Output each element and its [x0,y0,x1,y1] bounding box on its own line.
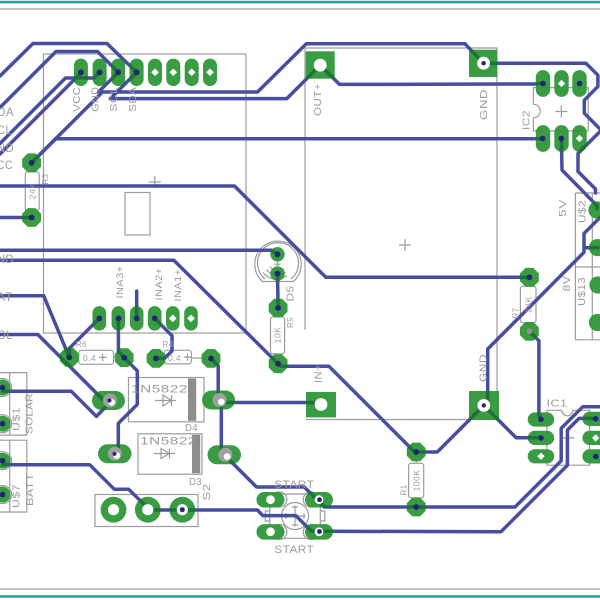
label 8V [561,276,573,292]
IC1 pad left bottom [528,449,555,463]
IC2 pad top 3 [572,70,586,97]
label VCC (header pin 1) [71,87,83,112]
label 1N5822 (D3) [140,436,197,448]
svg-text:R3: R3 [40,174,50,185]
drill diamonds INA pads 5-6 [169,315,195,323]
switch S2 pad 3 [169,497,195,523]
wire: left edge horizontal then diagonal to R5 bottom pad [0,260,278,363]
left edge net label GND [0,143,14,155]
label 5V [557,199,569,217]
left edge net label BAT [0,292,13,304]
switch S2 pad 2 [135,497,161,523]
START button pad bottom-left [257,524,285,540]
header JP1 pad 6 [166,59,180,87]
connector US2 5V outline [575,193,600,267]
IC2 pad bottom 2 [554,125,568,152]
svg-text:0.4: 0.4 [83,353,96,363]
terminal OUT+ square pad [306,51,335,78]
connector US13 pad 1 [589,276,600,293]
svg-text:U$13: U$13 [576,277,588,306]
label GND (header pin 2) [90,87,102,112]
svg-text:SOLAR: SOLAR [24,393,36,434]
svg-text:START: START [274,479,314,491]
pushbutton START body outline [265,492,325,540]
label U$13 [576,277,588,306]
label 1N5822 (D4) [131,384,188,396]
svg-text:IC1: IC1 [547,398,568,410]
wire: right edge re-entry to US2 area [578,132,600,194]
svg-text:5V: 5V [557,199,569,217]
connector US2 pad 1 [588,201,600,218]
wire: header pad3 stub to junction, across to GND square pad [99,44,484,92]
resistor R6 right pad [115,348,134,367]
diode D3 left pad [98,444,132,463]
resistor R7 bottom pad [520,322,539,341]
header JP1 pad 3 SCL [111,59,125,87]
svg-text:100K: 100K [411,470,421,492]
INA header pad 4 INA2+ [148,306,162,331]
label SOLAR [24,393,36,434]
left edge net label GND2 [0,254,14,266]
label OUT+ [312,83,324,116]
wire: D4 right pad across to IN+ pad [218,401,321,405]
svg-text:8V: 8V [561,276,573,292]
wire net SOLAR: connector pad to D4 left pad [3,391,111,416]
label SCL (header pin 3) [108,87,120,112]
svg-text:CC: CC [0,160,13,172]
label GND (middle square pad) [477,354,489,382]
svg-text:CL: CL [0,125,12,137]
svg-text:D5: D5 [285,286,297,302]
IC2 pad top 1 [536,70,550,97]
resistor R1 bottom pad [407,498,426,517]
header JP1 pad 5 [148,59,162,87]
wire: START pad4 along bottom to IC1 right top pin [320,418,596,531]
IC1 pad right middle [582,431,600,445]
diode D4 left pad [92,391,125,410]
header JP1 pad 8 [203,59,217,87]
svg-text:U$1: U$1 [12,407,23,431]
label INA3+ [115,265,126,298]
label START (bottom) [274,544,314,556]
switch S2 pad 1 [101,497,127,523]
IC2 outline with pin1 notch [533,88,588,131]
drill diamonds header pads 5-8 [151,68,214,76]
svg-text:SDA: SDA [127,87,139,112]
resistor R5 top pad [269,299,288,318]
value 10K (R5) [273,327,283,344]
wire net BAT: left edge steep diagonal to R6 left pad [0,296,69,358]
wire net GND: left edge under pads to header pad 2 [0,72,100,143]
wire: R3 top pad to long horizontal to IC2 bottom pin 1 [32,139,543,163]
svg-text:GND: GND [477,354,489,382]
header JP1 pad 7 [185,59,199,87]
connector U$7 BATT pad 1 [0,453,11,469]
svg-text:BATT: BATT [24,473,36,506]
left edge net label SDA [0,107,14,119]
svg-text:ND: ND [0,254,14,266]
label R6 and value 0.47 [76,339,107,363]
module U$5 outline box (top-middle) [305,48,497,420]
svg-text:D4: D4 [185,422,198,434]
wire: R5 bottom pad to IN+ junction to R1 top pad [278,364,414,452]
resistor R3 bottom pad [22,208,41,227]
wire: GND2 square pad up and over to right edge via US2 [484,218,600,406]
resistor R1 top pad [407,443,426,462]
resistor R7 top pad [520,268,539,287]
connector U$7 BATT outline [0,440,27,512]
svg-text:0.4: 0.4 [168,353,181,363]
IC1 pad right bottom [582,449,600,463]
display window rectangle inside module [125,193,150,236]
svg-text:INA1+: INA1+ [173,268,184,301]
IC1 outline with pin1 notch [547,410,590,465]
svg-text:10K: 10K [273,327,283,344]
wire: left edge horizontal to D5 top pad [0,250,278,254]
START button pad top-right [305,492,333,508]
label R7 [511,308,521,319]
wire: stub from vertical to US2 pad 2 [584,246,598,250]
header JP1 pad 4 SDA [130,59,144,87]
svg-text:GND: GND [478,89,490,120]
terminal IN+ square pad [306,392,336,417]
wire: R7 bottom pad down to IC1 left top pin [529,331,541,419]
svg-text:OUT+: OUT+ [312,83,324,116]
svg-text:DA: DA [0,107,14,119]
svg-text:U$7: U$7 [12,484,23,508]
label U$7 [12,484,23,508]
connector US2 pad 2 [589,239,600,256]
drill holes START button pads [266,495,323,536]
svg-text:R6: R6 [76,339,87,349]
drill dots capacitor D5 [275,251,281,276]
wire: INA pad2 down to R6 right pad [118,318,124,357]
wire: INA pad4 zigzag to R4 left pad [155,318,172,358]
capacitor D5 top pad [270,247,284,261]
terminal GND square pad (top) [469,50,497,77]
label D5 [285,286,297,302]
wire net SDA: left edge to header pad 4 [0,44,137,77]
connector U$1 SOLAR outline [0,373,27,436]
svg-text:1N5822: 1N5822 [131,384,188,396]
drill dots header pads 1-4 [78,69,140,75]
left edge net label SCL [0,125,12,137]
value 100K (R1) [411,470,421,492]
resistor R1 body [409,454,424,504]
capacitor D5 round body outline [255,241,301,281]
connector U$7 BATT pad 2 [0,487,11,503]
svg-text:R5: R5 [285,317,295,328]
label IN+ [312,364,324,383]
drill dots resistor pads [29,160,533,510]
origin cross of module U$5 [399,239,411,251]
wire: D5 bottom pad to R5 top pad [276,274,280,308]
label SDA (header pin 4) [127,87,139,112]
connector U$1 SOLAR pad 2 [0,416,11,432]
svg-text:R4: R4 [163,339,174,349]
diode D3 cathode band [192,435,200,473]
wire: GND2 square pad down-left to R1 top pad [416,405,484,452]
START button pad top-left [257,492,285,508]
wire net VCC: left edge to header pad 1 [0,73,81,154]
svg-text:U$2: U$2 [577,200,589,223]
label IC1 [547,398,568,410]
diode D3 right pad [208,445,242,464]
svg-text:24K: 24K [27,183,37,200]
wire: left edge to R3 bottom pad [0,216,32,220]
wire: left edge horizontal crossing R3 then diagonal to R7 top pad [0,186,529,277]
label START (top) [274,479,314,491]
value 24K (R3) [27,183,37,200]
wire net SCL: left edge to header pad 3 [0,52,118,108]
drill holes diodes D4 D3 [103,393,232,462]
wire: D4 right pad down to D3 right pad [218,400,224,454]
drill dots INA pads 1-4 [96,316,157,322]
left edge net label VCC [0,160,13,172]
svg-text:SCL: SCL [108,87,120,112]
label INA1+ [173,268,184,301]
diode D4 outline box [129,378,205,422]
label R4 and value 0.47 [163,339,192,363]
wire: header pad4 stub, across to OUT+ pad and on to IC2 pin [110,65,542,98]
START button pad bottom-right [305,524,333,540]
module U$4 outline box (top-left) [44,54,247,333]
svg-text:IC2: IC2 [521,110,533,130]
svg-text:OL: OL [0,330,13,342]
INA header pad 3 [130,306,144,331]
svg-text:INA2+: INA2+ [154,267,165,300]
wire: D3 right pad through START button to IC1 area top right exit [224,407,600,507]
INA header pad 1 [93,306,107,331]
resistor R6 body [72,350,121,364]
diode D4 schematic symbol [155,395,176,406]
INA header pad 5 INA1+ [166,306,180,331]
wire: R6 right pad down around to D3 left pad [116,358,137,453]
resistor R4 left pad [147,349,166,368]
label U$2 [577,200,589,223]
diode D3 outline box [138,434,202,474]
wire net BATT: connector through S2 pad3 to START pad4 [3,465,320,532]
origin cross of IC2 [555,106,567,118]
INA header pad 6 [184,306,198,331]
label IC2 [521,110,533,130]
wire: R3 top pad diagonal to mid junction [32,92,103,163]
resistor R4 right pad [202,349,221,368]
resistor R3 body [25,165,39,216]
svg-text:ND: ND [0,143,14,155]
wire: stub into INA pad3 from above [135,291,139,318]
connector US13 8V outline [575,267,600,340]
label R3 [40,174,50,185]
origin cross of IC1 [562,432,574,444]
wire: IC2 bottom pin 2 down to US2 pad 1 [561,139,597,209]
label S2 [201,484,213,501]
connector US13 pad 2 [589,314,600,331]
drill holes square terminal pads [314,57,490,412]
svg-text:1N5822: 1N5822 [140,436,197,448]
label BATT [24,473,36,506]
svg-text:24K: 24K [523,296,533,313]
header JP1 pad 1 VCC [74,59,88,87]
resistor R5 body [271,310,285,360]
label R1 [399,485,409,496]
svg-text:S2: S2 [201,484,213,501]
resistor R4 body [157,350,206,364]
svg-text:START: START [274,544,314,556]
header JP1 pad 2 GND [93,59,107,87]
IC2 pad bottom 3 [572,125,586,152]
origin cross of module U$4 [149,176,161,188]
left edge net label SOL [0,330,13,342]
label D3 [189,476,202,488]
label U$1 [12,407,23,431]
svg-text:INA3+: INA3+ [115,265,126,298]
svg-text:R7: R7 [511,308,521,319]
switch S2 outline box [95,495,198,527]
resistor R5 bottom pad [269,354,288,373]
label D4 [185,422,198,434]
diode D4 cathode band [188,379,196,421]
svg-text:AT: AT [0,292,13,304]
IC1 pad left middle [528,431,555,445]
svg-text:IN+: IN+ [312,364,324,383]
drill marks IC2 pads [540,80,583,142]
resistor R7 body [520,279,536,328]
svg-text:R1: R1 [399,485,409,496]
drill holes switch S2 [108,504,188,515]
IC1 pad right top [582,412,600,426]
INA header pad 2 INA3+ [112,306,126,331]
value 24K (R7) [523,296,533,313]
label GND (top square pad) [478,89,490,120]
polarity cross of D5 [275,261,281,267]
svg-text:VCC: VCC [71,87,83,112]
wire: R4 right pad down to D4 right pad [211,358,218,399]
svg-text:GND: GND [90,87,102,112]
capacitor D5 bottom pad [270,266,284,280]
drill marks IC1 pads [537,416,599,460]
label INA2+ [154,267,165,300]
IC2 pad top 2 [554,70,568,97]
wire: GND2 square pad to IC1 left middle pin [484,405,541,437]
diode D4 right pad [202,391,235,410]
label R5 [285,317,295,328]
IC2 pad bottom 1 [536,125,550,152]
drill dots connector U$1 U$7 pads [0,385,5,498]
wire net SOL: left edge to D4 left pad [0,335,109,401]
terminal GND square pad (middle) [469,391,499,420]
connector U$1 SOLAR pad 1 [0,380,11,396]
wire: GND square pad along top right edge zigzag [484,63,600,129]
IC1 pad left top [528,412,555,426]
resistor R3 top pad [22,153,41,172]
resistor R6 left pad [60,348,79,367]
diode D3 schematic symbol [154,449,175,459]
wire: INA pad1 down to R6 left pad [69,318,99,357]
